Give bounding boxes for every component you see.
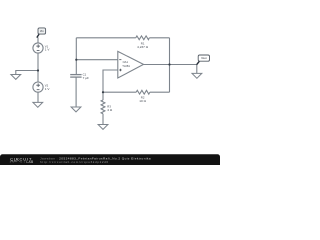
svg-text:Vout: Vout — [201, 56, 207, 60]
node junction V1 V2 ground — [37, 69, 39, 71]
wire R3 top stem — [102, 92, 104, 100]
wire junction to V2 — [37, 71, 39, 83]
svg-text:4 Ω: 4 Ω — [107, 108, 113, 112]
node flag Vout — [198, 55, 209, 61]
svg-text:7 µF: 7 µF — [83, 76, 89, 80]
svg-text:4,237 Ω: 4,237 Ω — [137, 45, 149, 49]
resistor R2 — [136, 90, 150, 94]
wire op-amp output to Vout terminal — [144, 64, 197, 66]
CircuitLab logo wordmark — [10, 156, 34, 164]
op-amp plus pin mark — [119, 69, 122, 72]
label R2 value — [139, 96, 146, 104]
wire inverting input — [76, 59, 118, 61]
svg-text:http://circuitlab.com/c/qvu6kd: http://circuitlab.com/c/qvu6kdp22d6 — [40, 160, 109, 164]
node flag Vin — [38, 28, 46, 34]
label C1 value — [83, 72, 89, 79]
resistor R3 — [101, 100, 105, 114]
wire Vout ground stem — [196, 65, 198, 74]
svg-text:10 Ω: 10 Ω — [139, 99, 146, 103]
svg-text:1 V: 1 V — [45, 48, 51, 52]
ground under V2 — [33, 102, 43, 107]
label R1 value — [137, 42, 149, 50]
wire bottom left segment — [103, 91, 136, 93]
capacitor C1 — [70, 75, 81, 78]
wire left vertical from top feedback corner to C1 — [75, 38, 77, 74]
node flag Vout pole — [197, 61, 200, 65]
CircuitLab logo waveform — [10, 161, 22, 163]
op-amp minus pin mark — [119, 59, 121, 61]
wire V1 top stem — [37, 37, 39, 43]
node junction at C1 / inverting input — [75, 59, 77, 61]
wire right vertical — [169, 38, 171, 92]
ground at Vout — [192, 73, 202, 78]
label V2 value — [45, 83, 51, 90]
voltage source V2 — [33, 82, 43, 92]
ground left of V2 — [11, 75, 21, 80]
node junction R2 R3 non-inverting — [102, 91, 104, 93]
ground under R3 — [98, 125, 108, 130]
svg-text:OA1: OA1 — [123, 60, 129, 64]
wire top feedback right segment — [149, 37, 169, 39]
svg-text:1 V: 1 V — [45, 87, 51, 91]
node junction output feedback — [168, 63, 170, 65]
resistor R1 — [136, 36, 150, 40]
svg-text:Vin: Vin — [40, 29, 44, 33]
wire bottom right segment — [150, 91, 170, 93]
node flag Vin pole — [37, 34, 39, 38]
label R3 value — [107, 104, 113, 112]
wire C1 bottom stem — [75, 77, 77, 107]
footer bar — [0, 154, 220, 167]
wire R3 bottom stem — [102, 114, 104, 125]
wire junction to left ground — [16, 71, 38, 75]
wire V2 bottom stem — [37, 92, 39, 102]
voltage source V1 — [33, 43, 43, 53]
svg-text:LAB: LAB — [26, 160, 34, 164]
wire V1 to junction — [37, 53, 39, 70]
svg-text:TL081: TL081 — [122, 64, 130, 68]
ground under C1 — [71, 107, 81, 112]
wire non-inverting input — [103, 70, 118, 92]
op-amp OA1 — [118, 51, 144, 78]
label V1 value — [45, 44, 51, 51]
wire top feedback left segment — [76, 37, 136, 39]
